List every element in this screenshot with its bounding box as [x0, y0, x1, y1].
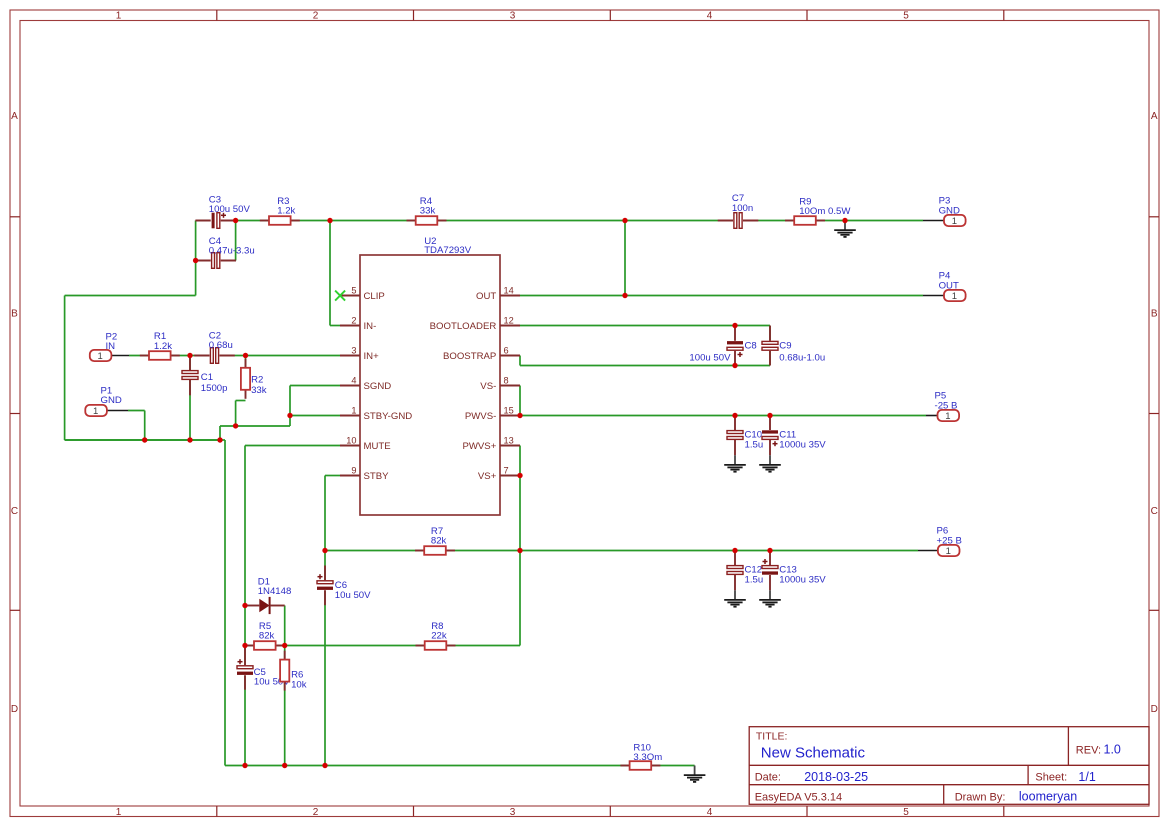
svg-text:1500p: 1500p — [201, 383, 228, 394]
svg-text:SGND: SGND — [364, 381, 392, 392]
ground under C12 — [724, 590, 746, 606]
U2 left pin 10 MUTE — [340, 436, 391, 452]
wire P1 to ground rail — [128, 411, 145, 441]
svg-text:1: 1 — [116, 807, 122, 818]
svg-text:1.5u: 1.5u — [745, 440, 764, 451]
wire VS+ pin7 down to +25 rail — [519, 476, 521, 551]
svg-text:2018-03-25: 2018-03-25 — [804, 770, 868, 784]
wire OUT pin14 y=295.5 — [520, 295, 923, 297]
junction PWVS+/VS+ — [517, 473, 522, 478]
wire C6 branch x=325 — [324, 551, 326, 766]
capacitor C6 — [317, 566, 372, 606]
U2 left pin 1 STBY-GND — [340, 406, 412, 422]
U2 right pin 13 PWVS+ — [462, 436, 520, 452]
svg-text:0.47u-3.3u: 0.47u-3.3u — [209, 245, 255, 256]
svg-text:4: 4 — [707, 807, 713, 818]
svg-text:3: 3 — [510, 807, 516, 818]
svg-text:OUT: OUT — [939, 280, 959, 291]
svg-text:1/1: 1/1 — [1078, 770, 1095, 784]
svg-text:A: A — [11, 111, 18, 122]
svg-text:3: 3 — [510, 11, 516, 22]
svg-text:1: 1 — [116, 11, 122, 22]
junction P1 drop — [142, 437, 147, 442]
wire VS- pin8 to PWVS- — [519, 386, 521, 416]
junction SGND/STBY-GND — [287, 413, 292, 418]
ground after R10 — [684, 766, 706, 782]
wire IN- from R3/R4 junction x=330 — [330, 221, 341, 326]
wire R2 branch x=245.5 — [245, 356, 247, 368]
svg-text:1: 1 — [952, 291, 957, 302]
svg-text:100n: 100n — [732, 203, 753, 214]
resistor R1 — [140, 331, 180, 360]
svg-text:4: 4 — [351, 376, 356, 386]
svg-text:GND: GND — [101, 395, 122, 406]
U2 right pin 7 VS+ — [478, 466, 520, 482]
wire R2 bottom jog — [236, 401, 246, 427]
junction bottom rail C6 — [322, 763, 327, 768]
wire R5-R8 row y=645.5 — [245, 645, 520, 647]
wire OUT to top rail x=625 — [624, 221, 626, 296]
svg-text:10: 10 — [346, 436, 356, 446]
svg-text:1: 1 — [945, 411, 950, 422]
resistor R5 — [245, 621, 285, 650]
U2 right pin 12 BOOTLOADER — [430, 316, 520, 332]
svg-text:A: A — [1151, 111, 1158, 122]
svg-text:New Schematic: New Schematic — [761, 744, 866, 761]
wire BOOTLOADER pin12 y=325.5 — [520, 325, 770, 327]
wire C4 row y=260.5 — [196, 260, 236, 262]
junction C8 top — [732, 323, 737, 328]
junction R5 left — [242, 643, 247, 648]
svg-text:2: 2 — [313, 11, 319, 22]
svg-text:STBY-GND: STBY-GND — [364, 411, 413, 422]
junction OUT rail — [622, 293, 627, 298]
junction bottom rail R6 — [282, 763, 287, 768]
svg-text:14: 14 — [504, 286, 514, 296]
junction C12 — [732, 548, 737, 553]
junction C13 — [767, 548, 772, 553]
svg-text:7: 7 — [504, 466, 509, 476]
U2 right pin 6 BOOSTRAP — [443, 346, 520, 362]
junction C1 drop — [187, 437, 192, 442]
svg-text:REV:: REV: — [1076, 744, 1101, 756]
svg-text:1: 1 — [93, 406, 98, 417]
resistor R3 — [260, 196, 300, 225]
svg-text:13: 13 — [504, 436, 514, 446]
wire MUTE pin10 y=445.5 — [245, 446, 341, 766]
svg-text:1000u 35V: 1000u 35V — [779, 575, 826, 586]
svg-text:B: B — [11, 309, 18, 320]
no-connect X on pin 5 CLIP — [335, 291, 345, 301]
junction C2/R2/IN+ — [243, 353, 248, 358]
capacitor C11 — [762, 416, 827, 456]
capacitor C7 — [718, 193, 759, 229]
svg-text:33k: 33k — [420, 206, 436, 217]
wire bottom rail y=765.5 — [225, 765, 695, 767]
U2 left pin 4 SGND — [340, 376, 391, 392]
wire R6 branch x=284.7 — [284, 646, 286, 766]
svg-text:100u 50V: 100u 50V — [689, 352, 731, 363]
svg-text:8: 8 — [504, 376, 509, 386]
svg-text:MUTE: MUTE — [364, 441, 391, 452]
resistor R7 — [415, 526, 455, 555]
svg-text:5: 5 — [903, 11, 909, 22]
svg-text:3.3Om: 3.3Om — [633, 752, 662, 763]
wire IN+ row y=355.5 — [129, 355, 341, 357]
svg-text:PWVS-: PWVS- — [465, 411, 496, 422]
svg-text:15: 15 — [504, 406, 514, 416]
capacitor C1 — [182, 355, 228, 396]
svg-text:Sheet:: Sheet: — [1035, 772, 1067, 784]
U2 left pin 2 IN- — [340, 316, 376, 332]
junction top-rail/OUT drop — [622, 218, 627, 223]
wire R8 right up x=520 — [519, 551, 521, 646]
svg-text:C9: C9 — [779, 340, 791, 351]
svg-text:C: C — [11, 506, 18, 517]
svg-text:B: B — [1151, 309, 1158, 320]
svg-text:D: D — [1151, 704, 1158, 715]
resistor R6 — [280, 651, 307, 691]
svg-text:CLIP: CLIP — [364, 291, 385, 302]
title block — [749, 727, 1149, 805]
op-amp U2 TDA7293V — [360, 236, 500, 515]
connector P5 -25B — [926, 391, 959, 422]
svg-text:TITLE:: TITLE: — [756, 731, 788, 743]
svg-text:100u 50V: 100u 50V — [209, 204, 251, 215]
capacitor C2 — [194, 331, 235, 365]
junction VS-/PWVS- — [517, 413, 522, 418]
svg-text:BOOSTRAP: BOOSTRAP — [443, 351, 496, 362]
svg-text:STBY: STBY — [364, 471, 390, 482]
ground near R9 — [834, 221, 856, 237]
resistor R2 — [241, 359, 267, 399]
svg-text:1: 1 — [98, 351, 103, 362]
capacitor C5 — [237, 646, 291, 690]
wire STBY-GND pin1 y=415.5 — [290, 415, 341, 417]
resistor R10 — [620, 743, 662, 770]
wire PWVS+ pin13 to VS+ — [519, 446, 521, 476]
svg-text:OUT: OUT — [476, 291, 496, 302]
svg-text:2: 2 — [313, 807, 319, 818]
svg-text:1.2k: 1.2k — [277, 206, 295, 217]
wire from y=426 up to STBY-GND junction — [289, 416, 291, 427]
connector P1 GND — [85, 385, 128, 417]
junction C11 — [767, 413, 772, 418]
junction C4 left — [193, 258, 198, 263]
wire D1 cathode drop x=284.7 — [284, 606, 286, 646]
capacitor C3 — [195, 194, 250, 229]
resistor R9 — [785, 197, 851, 225]
svg-text:1.0: 1.0 — [1104, 743, 1121, 757]
svg-text:10k: 10k — [291, 680, 307, 691]
ground under C13 — [759, 590, 781, 606]
junction R2 jog — [233, 423, 238, 428]
svg-text:1N4148: 1N4148 — [258, 586, 292, 597]
wire top rail net C3-R3-R4-C7-R9-P3 y=220.5 — [196, 220, 923, 222]
wire C1 branch x=190 — [189, 356, 191, 441]
svg-text:1: 1 — [946, 546, 951, 557]
U2 right pin 15 PWVS- — [465, 406, 520, 422]
svg-text:82k: 82k — [431, 536, 447, 547]
svg-text:1: 1 — [351, 406, 356, 416]
connector P2 IN — [90, 331, 129, 362]
U2 left pin 9 STBY — [340, 466, 389, 482]
connector P6 +25B — [918, 526, 962, 557]
junction D1 anode — [242, 603, 247, 608]
svg-text:IN-: IN- — [364, 321, 377, 332]
junction R8/+25 rail — [517, 548, 522, 553]
svg-text:D: D — [11, 704, 18, 715]
ground under C10 — [724, 455, 746, 471]
diode D1 1N4148 — [245, 577, 291, 615]
svg-text:6: 6 — [504, 346, 509, 356]
svg-text:33k: 33k — [251, 385, 267, 396]
U2 right pin 14 OUT — [476, 286, 520, 302]
ground under C11 — [759, 455, 781, 471]
svg-text:EasyEDA V5.3.14: EasyEDA V5.3.14 — [755, 791, 842, 803]
svg-text:4: 4 — [707, 11, 713, 22]
capacitor C8 — [689, 326, 756, 366]
junction R5/R6/D1 — [282, 643, 287, 648]
svg-text:C8: C8 — [745, 340, 757, 351]
capacitor C10 — [727, 416, 764, 456]
svg-text:+25 B: +25 B — [937, 535, 962, 546]
svg-text:5: 5 — [903, 807, 909, 818]
capacitor C13 — [762, 551, 827, 591]
junction STBY/R7 — [322, 548, 327, 553]
U2 right pin 8 VS- — [480, 376, 520, 392]
svg-text:0.68u: 0.68u — [209, 340, 233, 351]
wire ground rail y=440 — [65, 439, 220, 441]
wire BOOSTRAP pin6 — [520, 356, 770, 366]
svg-text:9: 9 — [351, 466, 356, 476]
U2 left pin 3 IN+ — [340, 346, 379, 362]
svg-text:loomeryan: loomeryan — [1019, 790, 1077, 804]
junction C10 — [732, 413, 737, 418]
svg-text:3: 3 — [351, 346, 356, 356]
svg-text:82k: 82k — [259, 631, 275, 642]
junction bottom rail C5 — [242, 763, 247, 768]
resistor R8 — [416, 621, 456, 650]
svg-text:12: 12 — [504, 316, 514, 326]
wire jog at x=220 y=440 to x=225 down — [220, 426, 225, 766]
junction C8 bottom — [732, 363, 737, 368]
junction R3/R4/IN- — [327, 218, 332, 223]
wire C3/C4 right vertical x=235.6 — [235, 221, 237, 261]
junction C3/R3 — [233, 218, 238, 223]
svg-text:0.68u-1.0u: 0.68u-1.0u — [779, 352, 825, 363]
svg-text:10Om 0.5W: 10Om 0.5W — [799, 206, 851, 217]
U2 left pin 5 CLIP — [340, 286, 385, 302]
svg-text:IN: IN — [106, 341, 116, 352]
wire SGND pin4 y=385.5 — [290, 386, 341, 416]
junction R1/C2/C1 — [187, 353, 192, 358]
svg-text:1000u 35V: 1000u 35V — [779, 440, 826, 451]
capacitor C9 — [762, 326, 826, 366]
connector P4 OUT — [923, 271, 966, 302]
wire STBY pin9 — [325, 476, 341, 551]
svg-text:1.2k: 1.2k — [154, 341, 172, 352]
wire y=426 segment — [220, 425, 290, 427]
svg-text:2: 2 — [351, 316, 356, 326]
svg-text:C: C — [1151, 506, 1158, 517]
svg-text:VS+: VS+ — [478, 471, 497, 482]
svg-text:10u 50V: 10u 50V — [335, 590, 371, 601]
svg-text:TDA7293V: TDA7293V — [424, 245, 472, 256]
capacitor C4 — [195, 236, 254, 269]
svg-text:-25 B: -25 B — [935, 400, 958, 411]
svg-text:C1: C1 — [201, 372, 213, 383]
capacitor C12 — [727, 551, 764, 591]
resistor R4 — [407, 196, 447, 225]
svg-text:Date:: Date: — [755, 772, 781, 784]
wire left rail from C4 to ground rail — [65, 261, 220, 441]
svg-text:1.5u: 1.5u — [745, 575, 764, 586]
svg-text:BOOTLOADER: BOOTLOADER — [430, 321, 497, 332]
svg-text:5: 5 — [351, 286, 356, 296]
svg-text:Drawn By:: Drawn By: — [955, 791, 1006, 803]
junction ground rail jog — [217, 437, 222, 442]
svg-text:22k: 22k — [431, 631, 447, 642]
wire +25 rail y=550.5 R7 to P6 — [325, 550, 918, 552]
svg-text:1: 1 — [952, 216, 957, 227]
svg-text:VS-: VS- — [480, 381, 496, 392]
svg-text:GND: GND — [939, 205, 960, 216]
wire PWVS- pin15 y=415.5 to P5 — [520, 415, 926, 417]
connector P3 GND — [923, 196, 966, 227]
svg-text:R2: R2 — [251, 375, 263, 386]
wire C3/C4 left vertical x=195.6 — [195, 221, 197, 261]
svg-text:IN+: IN+ — [364, 351, 380, 362]
svg-text:PWVS+: PWVS+ — [462, 441, 496, 452]
junction R9/ground — [842, 218, 847, 223]
wire C9 vertical x=770 — [769, 326, 771, 366]
